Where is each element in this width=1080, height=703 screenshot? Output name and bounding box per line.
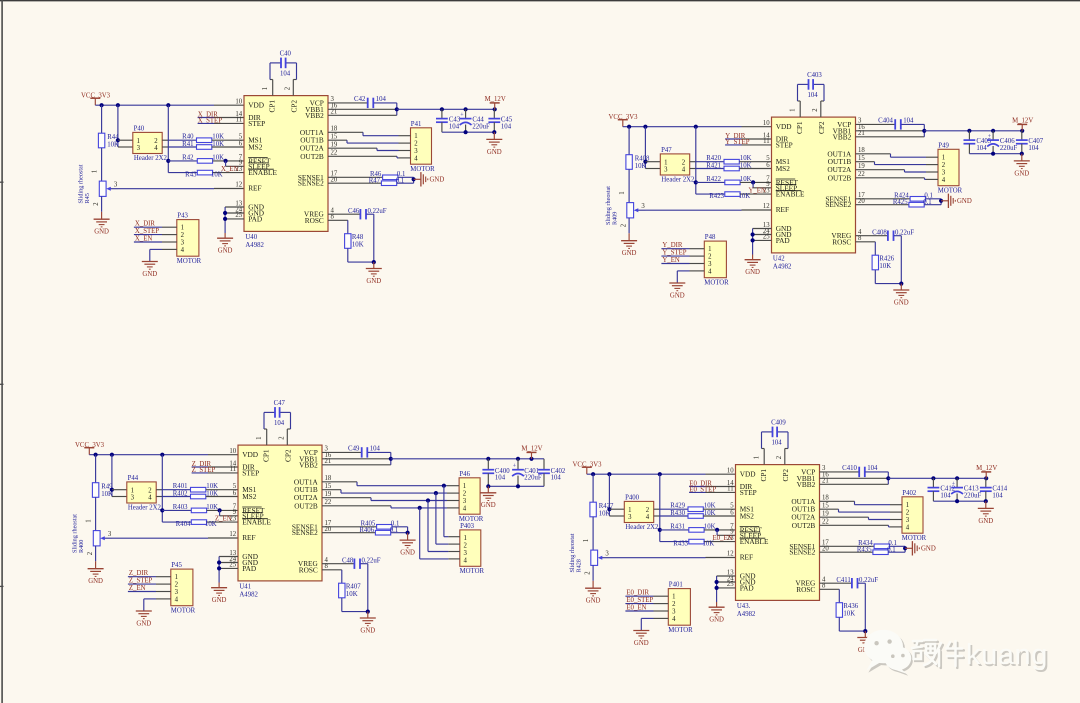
svg-text:A4982: A4982	[245, 242, 264, 249]
svg-text:C48: C48	[342, 557, 354, 564]
net label E0_STEP at connector (E0 axis driver)	[625, 597, 653, 604]
pin names U42 left side (Y axis driver)	[776, 121, 826, 245]
svg-text:10K: 10K	[704, 523, 716, 530]
svg-text:2: 2	[154, 138, 158, 145]
ground at ROSC network (X axis driver)	[366, 262, 382, 285]
net label E0_DIR at DIR pin (E0 axis driver)	[689, 481, 735, 488]
svg-text:1: 1	[619, 191, 626, 194]
svg-text:2: 2	[620, 223, 627, 227]
svg-text:OUT2B: OUT2B	[792, 521, 816, 530]
svg-text:18: 18	[331, 126, 338, 133]
ground below rheostat (E0 axis driver)	[585, 581, 601, 605]
svg-text:22: 22	[858, 171, 865, 178]
svg-text:M_12V: M_12V	[1012, 118, 1033, 125]
net label Z_STEP at connector (Z axis driver)	[128, 578, 156, 585]
svg-text:2: 2	[414, 141, 418, 148]
pin numbers U40 right side (X axis driver)	[331, 96, 338, 220]
IC U40 A4982 stepper driver (X axis driver)	[244, 96, 328, 249]
svg-text:2: 2	[708, 254, 712, 261]
sliding rheostat R428 (REF pot) (E0 axis driver)	[569, 533, 609, 581]
ground at sense resistors (E0 axis driver)	[905, 541, 936, 555]
svg-text:3: 3	[672, 608, 676, 615]
svg-text:OUT2B: OUT2B	[300, 152, 324, 161]
svg-text:R45: R45	[84, 193, 91, 203]
svg-text:1: 1	[628, 507, 631, 514]
svg-text:1: 1	[181, 225, 184, 232]
capacitor C401 220uF (electrolytic) (Z axis driver)	[512, 459, 542, 487]
svg-text:PAD: PAD	[740, 583, 754, 592]
svg-text:15: 15	[325, 483, 332, 490]
svg-text:1: 1	[664, 160, 667, 167]
net label Z_DIR at connector (Z axis driver)	[128, 570, 156, 577]
svg-text:A4982: A4982	[737, 611, 756, 618]
capacitor C407 104 (Y axis driver)	[1016, 131, 1044, 154]
svg-text:11: 11	[763, 138, 770, 145]
svg-text:GND: GND	[634, 640, 649, 647]
header P47 Header 2X2 (Y axis driver)	[660, 147, 696, 183]
svg-text:1: 1	[754, 456, 761, 459]
connector P48 MOTOR signal header (Y axis driver)	[690, 234, 730, 286]
svg-text:VBB2: VBB2	[305, 111, 324, 120]
svg-text:SENSE2: SENSE2	[789, 548, 815, 557]
wire OUT1B to motor pin 2 (E0 axis driver)	[820, 509, 891, 512]
svg-text:M_12V: M_12V	[485, 96, 506, 103]
capacitor C408 0.22uF (VREG) (Y axis driver)	[856, 229, 915, 283]
connector P49 MOTOR output (Y axis driver)	[926, 143, 963, 195]
wire reset/enable pullup branch (X axis driver)	[166, 105, 170, 172]
wire OUT1B to motor pins 2 (Z axis driver)	[322, 490, 448, 544]
svg-text:3: 3	[942, 169, 946, 176]
svg-text:CP2: CP2	[817, 121, 826, 134]
svg-text:A4982: A4982	[239, 591, 258, 598]
wire decoupling bottom rail (E0 axis driver)	[933, 499, 988, 503]
svg-text:GND: GND	[709, 617, 724, 624]
wire REF net from rheostat wiper (Z axis driver)	[112, 537, 238, 539]
svg-text:Z_EN: Z_EN	[215, 516, 232, 523]
wire OUT2A to motor pin 3 (X axis driver)	[328, 148, 399, 150]
svg-text:GND: GND	[142, 271, 157, 278]
resistor R426 10K (ROSC) (Y axis driver)	[856, 242, 904, 286]
svg-text:R425: R425	[893, 199, 908, 206]
svg-text:1: 1	[175, 574, 178, 581]
svg-text:4: 4	[672, 616, 676, 623]
sliding rheostat R409 (REF pot) (Y axis driver)	[605, 186, 645, 234]
sliding rheostat R400 (REF pot) (Z axis driver)	[72, 514, 112, 562]
power port M_12V (X axis driver)	[485, 96, 506, 109]
ground below rheostat (Y axis driver)	[621, 233, 637, 257]
svg-text:GND: GND	[366, 278, 381, 285]
svg-text:19: 19	[858, 163, 865, 170]
ground at sense resistors (Y axis driver)	[941, 194, 972, 208]
wire 12V rail (Y axis driver)	[924, 129, 1024, 133]
resistor R407 10K (ROSC) (Z axis driver)	[322, 570, 370, 614]
wire VCC rail to VDD pin 10 (E0 axis driver)	[587, 472, 736, 476]
svg-text:104: 104	[280, 71, 291, 78]
capacitor C40 104 (charge pump CP1-CP2) (X axis driver)	[262, 51, 296, 96]
svg-text:3: 3	[464, 550, 468, 557]
svg-text:R421: R421	[706, 163, 721, 170]
wire OUT1A to motor pin 1 (Y axis driver)	[856, 154, 927, 157]
ground at ROSC network (Y axis driver)	[893, 284, 909, 307]
wire OUT1B to motor pin 2 (X axis driver)	[328, 140, 399, 143]
resistor R421 10K to MS2 (Y axis driver)	[696, 163, 772, 171]
svg-text:U41: U41	[239, 584, 251, 591]
svg-text:GND: GND	[430, 177, 445, 184]
resistor R433 10K to ENABLE (E0 axis driver)	[660, 539, 736, 547]
resistor R42 10K to RESET/SLEEP (X axis driver)	[168, 154, 244, 166]
power port M_12V (Y axis driver)	[1012, 118, 1033, 131]
resistor R405 0.1 sense 1 (Z axis driver)	[322, 520, 408, 529]
net label Y_STEP at connector (Y axis driver)	[661, 250, 689, 257]
svg-text:Header 2X2: Header 2X2	[134, 155, 168, 162]
svg-text:2: 2	[279, 436, 286, 440]
svg-text:3: 3	[605, 551, 609, 558]
svg-text:GND: GND	[136, 620, 151, 627]
svg-text:GND: GND	[94, 229, 109, 236]
svg-text:0.22uF: 0.22uF	[362, 557, 381, 564]
wire OUT2A to motor pin 3 (Y axis driver)	[856, 170, 927, 172]
svg-text:10K: 10K	[107, 142, 119, 149]
resistor R401 10K to MS1 (Z axis driver)	[162, 483, 238, 492]
svg-text:3: 3	[708, 261, 712, 268]
pin numbers U41 right side (Z axis driver)	[325, 446, 332, 570]
wire OUT2B to motor pin 4 (E0 axis driver)	[820, 525, 891, 527]
capacitor C44 220uF (electrolytic) (X axis driver)	[460, 109, 490, 132]
wire VCC rail to VDD pin 10 (X axis driver)	[95, 103, 244, 107]
svg-text:1: 1	[672, 594, 675, 601]
resistor R423 10K to ENABLE (Y axis driver)	[696, 192, 772, 200]
svg-text:4: 4	[154, 145, 158, 152]
svg-text:GND: GND	[670, 292, 685, 299]
sheet border left edge	[1, 0, 3, 703]
wire sense join (Z axis driver)	[406, 527, 410, 535]
watermark text 硬件kuang	[912, 639, 1050, 673]
resistor R49 10K (REF divider upper) (Z axis driver)	[92, 455, 113, 531]
svg-text:R409: R409	[612, 212, 619, 225]
net label Y_EN at connector (Y axis driver)	[661, 257, 689, 264]
svg-text:0.1: 0.1	[923, 199, 932, 206]
power port M_12V (E0 axis driver)	[976, 465, 997, 478]
svg-text:P47: P47	[661, 147, 672, 154]
net label X_STEP at connector (X axis driver)	[134, 228, 162, 235]
svg-text:P44: P44	[128, 475, 139, 482]
ground at ROSC network (E0 axis driver)	[857, 631, 873, 654]
pin numbers U42 left side (Y axis driver)	[763, 120, 770, 241]
svg-text:1: 1	[137, 138, 140, 145]
svg-text:R48: R48	[352, 234, 364, 241]
svg-text:10K: 10K	[212, 154, 224, 161]
svg-text:C411: C411	[836, 577, 850, 584]
net label Y_EN at ENABLE pin (Y axis driver)	[749, 188, 766, 195]
watermark WeChat logo	[864, 630, 913, 676]
header P400 Header 2X2 (E0 axis driver)	[624, 495, 660, 531]
svg-text:4: 4	[942, 177, 946, 184]
svg-text:MOTOR: MOTOR	[704, 279, 729, 286]
svg-text:2: 2	[175, 582, 179, 589]
svg-text:1: 1	[256, 436, 263, 439]
ground at U42 GND pins (Y axis driver)	[745, 229, 772, 277]
svg-text:GND: GND	[1014, 170, 1029, 177]
capacitor C405 104 (Y axis driver)	[964, 131, 992, 154]
wire REF net from rheostat wiper (X axis driver)	[118, 188, 244, 190]
resistor R420 10K to MS1 (Y axis driver)	[696, 155, 772, 164]
svg-text:10K: 10K	[599, 511, 611, 518]
svg-text:12: 12	[727, 551, 734, 558]
pin names U43. right side (E0 axis driver)	[789, 467, 816, 593]
svg-text:GND: GND	[921, 546, 936, 553]
svg-text:10K: 10K	[346, 591, 358, 598]
svg-text:R433: R433	[673, 541, 688, 548]
svg-text:R40: R40	[182, 134, 194, 141]
svg-text:2: 2	[181, 232, 185, 239]
capacitor C406 220uF (electrolytic) (Y axis driver)	[987, 131, 1017, 154]
svg-text:R423: R423	[709, 193, 724, 200]
svg-text:STEP: STEP	[248, 119, 265, 128]
svg-text:12: 12	[763, 203, 770, 210]
ground at sense resistors (Z axis driver)	[400, 533, 416, 557]
svg-text:220uF: 220uF	[524, 475, 542, 482]
svg-text:2: 2	[87, 551, 94, 555]
header P44 Header 2X2 (Z axis driver)	[127, 475, 163, 511]
svg-text:4: 4	[464, 557, 468, 564]
resistor R47 0.1 sense 2 (X axis driver)	[328, 177, 414, 185]
svg-text:3: 3	[906, 517, 910, 524]
svg-text:19: 19	[325, 491, 332, 498]
wire decoupling bottom rail (Z axis driver)	[486, 484, 544, 488]
svg-text:CP1: CP1	[759, 469, 768, 482]
svg-text:104: 104	[370, 446, 381, 453]
svg-text:2: 2	[148, 488, 152, 495]
capacitor C414 104 (E0 axis driver)	[980, 478, 1008, 501]
svg-text:3: 3	[641, 203, 645, 210]
svg-text:2: 2	[584, 571, 591, 575]
wire OUT1A to motor pin 1 (E0 axis driver)	[820, 501, 891, 504]
svg-text:GND: GND	[88, 578, 103, 585]
svg-text:10K: 10K	[212, 134, 224, 141]
wire OUT2B to motor pin 4 (X axis driver)	[328, 156, 399, 158]
capacitor C403 104 (charge pump CP1-CP2) (Y axis driver)	[790, 72, 824, 117]
svg-text:R430: R430	[670, 510, 685, 517]
resistor R404 10K to ENABLE (Z axis driver)	[162, 520, 238, 528]
svg-text:OUT2B: OUT2B	[828, 173, 852, 182]
resistor R422 10K to RESET/SLEEP (Y axis driver)	[696, 176, 772, 188]
net label Z_STEP at STEP pin (Z axis driver)	[192, 467, 238, 474]
capacitor C404 104 (VCP) (Y axis driver)	[856, 118, 925, 131]
svg-text:104: 104	[903, 118, 914, 125]
power port VCC_3V3 (Y axis driver)	[609, 114, 639, 127]
svg-text:R431: R431	[670, 523, 685, 530]
wire header supply branch (X axis driver)	[116, 105, 133, 147]
svg-text:10: 10	[235, 99, 242, 106]
net label X_STEP at STEP pin (X axis driver)	[198, 118, 244, 125]
resistor R41 10K to MS2 (X axis driver)	[168, 141, 244, 149]
svg-text:104: 104	[495, 475, 506, 482]
svg-text:REF: REF	[776, 205, 789, 214]
net label Y_DIR at connector (Y axis driver)	[661, 242, 689, 249]
ground at decoupling caps (Y axis driver)	[1014, 154, 1030, 178]
resistor R406 0.1 sense 2 (Z axis driver)	[322, 527, 408, 535]
svg-text:10K: 10K	[206, 491, 218, 498]
wire sense join (E0 axis driver)	[903, 546, 907, 552]
svg-text:P49: P49	[938, 143, 949, 150]
svg-text:104: 104	[376, 96, 387, 103]
resistor R43 10K to ENABLE (X axis driver)	[168, 170, 244, 178]
svg-text:220uF: 220uF	[1000, 145, 1018, 152]
connector P46 MOTOR output 1 (Z axis driver)	[447, 471, 484, 523]
svg-text:ROSC: ROSC	[299, 565, 318, 574]
svg-text:GND: GND	[957, 198, 972, 205]
pin names U40 left side (X axis driver)	[248, 100, 298, 224]
pin numbers U43. right side (E0 axis driver)	[822, 465, 829, 589]
ground at ROSC network (Z axis driver)	[360, 612, 376, 635]
net label E0_EN at connector (E0 axis driver)	[625, 605, 653, 612]
resistor R402 10K to MS2 (Z axis driver)	[162, 491, 238, 499]
resistor R40 10K to MS1 (X axis driver)	[168, 134, 244, 143]
svg-text:MOTOR: MOTOR	[460, 568, 485, 575]
svg-text:10K: 10K	[740, 163, 752, 170]
svg-text:CP2: CP2	[781, 469, 790, 482]
svg-text:3: 3	[628, 514, 632, 521]
svg-text:2: 2	[776, 455, 783, 459]
connector P403 MOTOR output 2 (Z axis driver)	[448, 523, 484, 575]
svg-text:CP2: CP2	[289, 100, 298, 113]
svg-text:1: 1	[942, 155, 945, 162]
wire REF net from rheostat wiper (Y axis driver)	[646, 209, 772, 211]
wire decoupling bottom rail (X axis driver)	[442, 130, 497, 134]
svg-text:R407: R407	[346, 583, 361, 590]
svg-text:ROSC: ROSC	[832, 237, 851, 246]
svg-text:ROSC: ROSC	[796, 585, 815, 594]
svg-text:3: 3	[463, 498, 467, 505]
svg-text:0.1: 0.1	[396, 177, 405, 184]
svg-text:18: 18	[325, 475, 332, 482]
pin names U40 right side (X axis driver)	[298, 98, 325, 224]
svg-text:REF: REF	[242, 533, 255, 542]
svg-text:6: 6	[766, 162, 770, 169]
net label X_DIR at connector (X axis driver)	[134, 221, 162, 228]
net label E0_EN at ENABLE pin (E0 axis driver)	[713, 535, 733, 542]
svg-text:R47: R47	[369, 177, 381, 184]
svg-text:GND: GND	[622, 250, 637, 257]
svg-text:STEP: STEP	[242, 468, 259, 477]
svg-text:10K: 10K	[206, 483, 218, 490]
svg-text:4: 4	[148, 495, 152, 502]
svg-text:VDD: VDD	[740, 470, 756, 479]
ground below connector P48 (Y axis driver)	[669, 283, 685, 299]
svg-text:220uF: 220uF	[472, 123, 490, 130]
svg-text:MOTOR: MOTOR	[171, 607, 196, 614]
ground at U43. GND pins (E0 axis driver)	[709, 576, 736, 624]
wire OUT2A to motor pins 3 (Z axis driver)	[322, 498, 448, 552]
capacitor C400 104 (Z axis driver)	[482, 459, 510, 487]
capacitor C409 104 (charge pump CP1-CP2) (E0 axis driver)	[754, 420, 788, 465]
svg-text:P45: P45	[171, 562, 182, 569]
svg-text:GND: GND	[212, 597, 227, 604]
svg-text:R400: R400	[78, 540, 85, 553]
svg-text:R43: R43	[185, 172, 197, 179]
svg-text:15: 15	[822, 503, 829, 510]
wire connector pin4 to ground (E0 axis driver)	[641, 618, 653, 630]
wire reset/enable pullup branch (E0 axis driver)	[658, 474, 662, 541]
svg-text:CP1: CP1	[795, 121, 804, 134]
svg-text:R428: R428	[576, 559, 583, 572]
svg-text:SENSE2: SENSE2	[825, 200, 851, 209]
svg-text:MOTOR: MOTOR	[459, 516, 484, 523]
svg-text:R420: R420	[706, 155, 721, 162]
svg-text:PAD: PAD	[242, 564, 256, 573]
pin names U43. left side (E0 axis driver)	[740, 469, 790, 593]
svg-text:0.22uF: 0.22uF	[859, 577, 878, 584]
svg-text:C47: C47	[274, 400, 286, 407]
svg-text:104: 104	[551, 475, 562, 482]
svg-text:2: 2	[464, 543, 468, 550]
pin names U41 right side (Z axis driver)	[292, 448, 319, 574]
ground at decoupling caps (E0 axis driver)	[978, 501, 994, 525]
wire header supply branch (E0 axis driver)	[607, 474, 624, 516]
svg-text:STEP: STEP	[740, 488, 757, 497]
resistor R436 10K (ROSC) (E0 axis driver)	[820, 589, 868, 633]
svg-text:GND: GND	[894, 299, 909, 306]
wire VBB1/VBB2 to 12V rail (Z axis driver)	[322, 457, 393, 465]
svg-text:CP1: CP1	[267, 100, 276, 113]
resistor R44 10K (REF divider upper) (X axis driver)	[98, 105, 119, 181]
wire connector pin4 to ground (Y axis driver)	[677, 271, 689, 283]
ground below connector P401 (E0 axis driver)	[633, 631, 649, 647]
svg-text:6: 6	[233, 490, 237, 497]
svg-text:10K: 10K	[843, 611, 855, 618]
net label Z_DIR at DIR pin (Z axis driver)	[192, 461, 238, 468]
svg-text:MOTOR: MOTOR	[177, 258, 202, 265]
svg-text:1: 1	[464, 535, 467, 542]
svg-text:GND: GND	[978, 518, 993, 525]
svg-text:R42: R42	[182, 154, 194, 161]
svg-text:E0_EN: E0_EN	[713, 535, 733, 542]
svg-text:C410: C410	[842, 465, 857, 472]
svg-text:18: 18	[822, 495, 829, 502]
svg-text:GND: GND	[400, 550, 415, 557]
header P40 Header 2X2 (X axis driver)	[133, 126, 169, 162]
svg-text:19: 19	[331, 142, 338, 149]
svg-text:GND: GND	[218, 248, 233, 255]
connector P401 MOTOR signal header (E0 axis driver)	[654, 582, 694, 634]
svg-text:2: 2	[285, 86, 292, 90]
svg-text:VBB2: VBB2	[833, 132, 852, 141]
svg-text:11: 11	[230, 466, 237, 473]
svg-text:10K: 10K	[879, 263, 891, 270]
net label E0_DIR at connector (E0 axis driver)	[625, 590, 653, 597]
svg-text:+: +	[988, 134, 992, 140]
ground at decoupling caps (X axis driver)	[486, 132, 502, 156]
svg-text:220uF: 220uF	[964, 492, 982, 499]
svg-text:1: 1	[414, 133, 417, 140]
svg-text:ROSC: ROSC	[305, 216, 324, 225]
resistor R434 0.1 sense 1 (E0 axis driver)	[820, 540, 906, 549]
connector P43 MOTOR signal header (X axis driver)	[162, 213, 202, 265]
capacitor C46 0.22uF (VREG) (X axis driver)	[328, 208, 387, 262]
net label E0_STEP at STEP pin (E0 axis driver)	[689, 487, 735, 494]
svg-text:1: 1	[92, 170, 99, 173]
sheet border top edge	[0, 0, 1080, 2]
svg-text:4: 4	[906, 524, 910, 531]
svg-text:104: 104	[867, 465, 878, 472]
svg-text:R404: R404	[176, 521, 191, 528]
svg-text:kuang: kuang	[966, 639, 1048, 671]
svg-text:P41: P41	[411, 121, 422, 128]
svg-text:MOTOR: MOTOR	[902, 535, 927, 542]
svg-text:U42: U42	[773, 256, 785, 263]
svg-text:PAD: PAD	[776, 236, 790, 245]
svg-text:C404: C404	[878, 118, 893, 125]
